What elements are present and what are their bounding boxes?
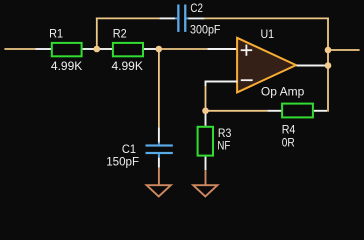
- resistor R2: [112, 27, 144, 74]
- wire R3 bottom pin lead: [205, 157, 207, 171]
- wire R4 right pin lead: [314, 110, 327, 112]
- wire R1 left pin lead: [35, 48, 51, 50]
- op-amp U1: [237, 27, 304, 99]
- wire R3 top pin lead: [205, 111, 207, 126]
- wire output stub to right: [328, 49, 360, 51]
- svg-text:R4: R4: [282, 122, 296, 136]
- wire C2 branch vertical from junction A: [96, 18, 98, 50]
- wire R4 left pin lead: [267, 110, 281, 112]
- wire minus net to R4: [206, 110, 268, 112]
- svg-text:150pF: 150pF: [106, 155, 139, 169]
- capacitor C1: [106, 142, 173, 169]
- wire op-amp plus pin lead: [207, 48, 237, 50]
- svg-text:4.99K: 4.99K: [51, 59, 82, 73]
- svg-text:0R: 0R: [282, 135, 295, 149]
- wire R2 left pin lead: [97, 48, 112, 50]
- resistor R1: [49, 27, 82, 74]
- wire C2 to right feedback rail: [205, 17, 329, 19]
- svg-text:U1: U1: [261, 27, 275, 41]
- svg-text:4.99K: 4.99K: [112, 59, 143, 73]
- wire op-amp output pin lead: [297, 65, 329, 67]
- ground under C1: [147, 168, 171, 197]
- wire to op-amp plus input: [159, 48, 207, 50]
- ground under R3: [193, 170, 217, 196]
- wire R2 right pin lead: [144, 48, 159, 50]
- wire C1 top pin lead: [158, 127, 160, 143]
- wire C2 right pin lead: [188, 17, 204, 19]
- node junction out-stub: [325, 47, 332, 54]
- svg-text:Op Amp: Op Amp: [261, 85, 305, 99]
- wire minus net elbow white: [205, 82, 207, 87]
- svg-text:C2: C2: [190, 1, 203, 15]
- node junction output: [325, 62, 332, 69]
- resistor R4: [282, 104, 313, 150]
- wire minus net vertical down: [205, 86, 207, 111]
- resistor R3: [198, 126, 232, 156]
- wire right vertical feedback rail: [327, 18, 329, 112]
- wire C1 branch vertical from junction B: [158, 49, 160, 127]
- wire C2 left pin lead: [159, 17, 175, 19]
- wire C1 bottom pin lead: [158, 158, 160, 168]
- svg-text:300pF: 300pF: [190, 22, 221, 36]
- node junction C (minus/R3/R4): [202, 108, 209, 115]
- wire input net left: [4, 48, 35, 50]
- svg-text:R2: R2: [113, 27, 127, 41]
- node junction A (R1/R2/C2 tap): [94, 46, 101, 53]
- node junction B (R2/C1/+in tap): [156, 46, 163, 53]
- wire R1 right pin lead: [83, 48, 97, 50]
- svg-text:R1: R1: [49, 27, 63, 41]
- wire C2 branch horizontal to C2: [96, 17, 159, 19]
- capacitor C2: [175, 1, 221, 37]
- wire op-amp minus pin lead: [205, 81, 238, 83]
- svg-text:NF: NF: [217, 139, 230, 153]
